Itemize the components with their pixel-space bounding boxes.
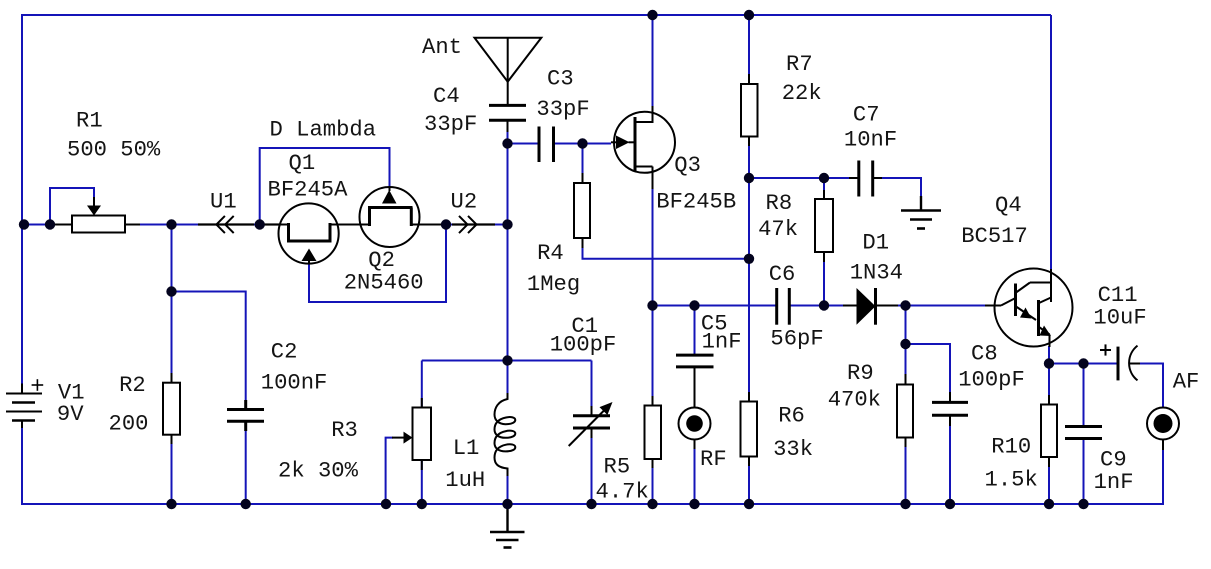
wire R2 branch bottom xyxy=(171,435,173,504)
svg-text:33pF: 33pF xyxy=(424,112,477,137)
battery V1 xyxy=(6,379,43,428)
diode D1 1N34 xyxy=(843,288,898,325)
wire R7 column xyxy=(748,15,750,84)
node main Q2 gate xyxy=(255,219,265,229)
svg-text:2N5460: 2N5460 xyxy=(344,270,424,295)
bus node R5 xyxy=(647,499,657,509)
svg-text:100nF: 100nF xyxy=(261,371,328,396)
antenna Ant xyxy=(475,38,542,106)
svg-text:1nF: 1nF xyxy=(702,330,742,355)
transistor Q3 BF245B xyxy=(611,106,675,189)
transistor Q4 BC517 xyxy=(985,269,1073,348)
resistor R9 xyxy=(897,374,913,447)
node top bus R7 xyxy=(744,10,754,20)
wire R3 wiper xyxy=(386,438,393,504)
svg-text:U1: U1 xyxy=(210,189,237,214)
svg-text:R7: R7 xyxy=(786,52,813,77)
svg-text:BF245A: BF245A xyxy=(268,177,349,202)
node U2 left xyxy=(441,219,451,229)
svg-text:R1: R1 xyxy=(76,108,103,133)
chevron node U1 xyxy=(198,216,279,233)
bus node L1/gnd xyxy=(502,499,512,509)
svg-text:R9: R9 xyxy=(847,361,874,386)
svg-text:10nF: 10nF xyxy=(844,128,897,153)
svg-text:Ant: Ant xyxy=(422,35,462,60)
wire C7 net xyxy=(749,177,859,179)
svg-text:D Lambda: D Lambda xyxy=(270,118,377,143)
svg-text:RF: RF xyxy=(700,447,727,472)
capacitor C7 xyxy=(849,161,882,197)
wire detector net y305 mid xyxy=(789,305,857,307)
capacitor C4 xyxy=(489,105,526,132)
svg-text:C3: C3 xyxy=(547,67,574,92)
node R7 bottom xyxy=(744,173,754,183)
wire C9 branch xyxy=(1083,364,1085,427)
wire C4 to C3 xyxy=(508,143,540,145)
transistor Q2 2N5460 xyxy=(360,186,447,247)
wire R1 wiper to node xyxy=(50,188,94,225)
connector RF xyxy=(679,367,711,449)
resistor R8 xyxy=(815,190,833,262)
node R8 top xyxy=(819,173,829,183)
capacitor C9 xyxy=(1065,427,1102,439)
node C2 tap xyxy=(166,286,176,296)
wire detector net y305 left xyxy=(653,305,777,307)
svg-text:1nF: 1nF xyxy=(1094,470,1134,495)
node tank xyxy=(502,355,512,365)
svg-text:C11: C11 xyxy=(1098,283,1138,308)
svg-text:C2: C2 xyxy=(271,340,298,365)
node Q4 emitter xyxy=(1044,358,1054,368)
wire R4 bottom to R7 column xyxy=(583,238,750,259)
svg-text:9V: 9V xyxy=(57,402,84,427)
wire R10 bottom xyxy=(1048,457,1050,504)
svg-text:BC517: BC517 xyxy=(961,224,1028,249)
svg-text:R3: R3 xyxy=(331,418,358,443)
capacitor C6 xyxy=(777,288,790,325)
wire R8 top xyxy=(823,178,825,199)
capacitor C5 xyxy=(676,355,714,367)
wire R7 to R6 xyxy=(748,137,750,402)
svg-text:AF: AF xyxy=(1173,370,1200,395)
svg-text:1uH: 1uH xyxy=(445,468,485,493)
bus node R2 xyxy=(166,499,176,509)
bus node R3 xyxy=(417,499,427,509)
node R8 bottom xyxy=(819,300,829,310)
wire C1 bottom xyxy=(591,438,593,504)
wire tank horizontal xyxy=(422,360,592,362)
svg-text:R5: R5 xyxy=(604,454,631,479)
connector AF xyxy=(1147,407,1179,450)
svg-text:R8: R8 xyxy=(766,191,793,216)
wire antenna column: C4 to L1 xyxy=(507,131,509,393)
wire R5 bottom xyxy=(652,459,654,504)
capacitor C11 (polarized) xyxy=(1100,344,1140,380)
capacitor C1 (variable) xyxy=(569,402,613,446)
wire R5 column xyxy=(652,306,654,406)
wire R9 column xyxy=(905,306,907,385)
node U2 right xyxy=(502,219,512,229)
resistor R1 (pot horizontal) xyxy=(50,197,140,233)
ground (tank) xyxy=(490,504,525,548)
bus node C1 xyxy=(586,499,596,509)
wire C5 to RF xyxy=(694,367,696,407)
resistor R3 (pot vertical) xyxy=(392,398,431,470)
wire Q4 collector column xyxy=(1050,15,1052,270)
svg-text:BF245B: BF245B xyxy=(656,189,736,214)
svg-text:56pF: 56pF xyxy=(770,326,823,351)
svg-text:R10: R10 xyxy=(991,435,1031,460)
svg-text:200: 200 xyxy=(109,412,149,437)
svg-text:1Meg: 1Meg xyxy=(527,272,580,297)
wire C2 bottom xyxy=(245,422,247,505)
wire C1 top xyxy=(591,361,593,407)
svg-text:4.7k: 4.7k xyxy=(596,479,649,504)
wire C5 branch xyxy=(694,306,696,356)
svg-text:R2: R2 xyxy=(119,373,146,398)
resistor R6 xyxy=(741,392,758,466)
svg-text:2k 30%: 2k 30% xyxy=(278,459,359,484)
wire main horizontal net xyxy=(22,224,508,226)
node main R2 xyxy=(166,219,176,229)
node C4/C3 xyxy=(502,138,512,148)
bus node R6 xyxy=(744,499,754,509)
svg-text:1N34: 1N34 xyxy=(850,261,903,286)
wire C9 bottom xyxy=(1083,439,1085,505)
bus node RF xyxy=(689,499,699,509)
wire Q1 gate loop xyxy=(309,225,446,303)
inductor L1 xyxy=(495,393,516,476)
node C8 tap xyxy=(900,339,910,349)
svg-text:D1: D1 xyxy=(862,230,889,255)
svg-text:100pF: 100pF xyxy=(958,367,1025,392)
node top bus Q3 xyxy=(647,10,657,20)
bus node R9 xyxy=(900,499,910,509)
bus node C9 xyxy=(1078,499,1088,509)
node D1 cathode xyxy=(900,300,910,310)
wire RF bottom xyxy=(694,440,696,504)
bus node R10 xyxy=(1044,499,1054,509)
chevron node U2 xyxy=(452,216,495,233)
svg-text:10uF: 10uF xyxy=(1093,306,1146,331)
wire emitter net to C11 xyxy=(1049,363,1117,365)
svg-text:100pF: 100pF xyxy=(550,333,617,358)
bus node R3 wiper xyxy=(381,499,391,509)
wire R9 bottom xyxy=(905,438,907,505)
svg-text:Q1: Q1 xyxy=(289,151,316,176)
svg-text:R6: R6 xyxy=(778,403,805,428)
svg-text:Q3: Q3 xyxy=(674,153,701,178)
svg-text:C7: C7 xyxy=(853,102,880,127)
wire Q3 source column xyxy=(652,187,654,306)
svg-text:1.5k: 1.5k xyxy=(985,467,1038,492)
bus node C8 xyxy=(945,499,955,509)
svg-text:33pF: 33pF xyxy=(536,97,589,122)
svg-text:Q4: Q4 xyxy=(995,193,1022,218)
node C3/R4 xyxy=(577,138,587,148)
wire R3 top xyxy=(421,361,423,408)
wire R10 top xyxy=(1048,364,1050,405)
wire C11 to AF xyxy=(1138,364,1163,408)
capacitor C3 xyxy=(539,127,554,163)
ground (C7) xyxy=(901,196,941,229)
svg-text:500 50%: 500 50% xyxy=(67,137,161,162)
resistor R4 xyxy=(574,173,590,248)
wire detector net y305 right xyxy=(876,305,997,307)
svg-text:C6: C6 xyxy=(769,262,796,287)
svg-text:U2: U2 xyxy=(451,189,478,214)
wire Q4 emitter xyxy=(1048,346,1050,364)
wire C2 branch xyxy=(172,292,246,410)
transistor Q1 BF245A xyxy=(260,203,360,264)
node main R1 left xyxy=(19,219,29,229)
wire C8 bottom xyxy=(949,416,951,505)
node Q3 source xyxy=(647,300,657,310)
svg-text:L1: L1 xyxy=(453,436,480,461)
wire top bus xyxy=(22,15,1051,385)
svg-text:33k: 33k xyxy=(773,437,813,462)
svg-text:22k: 22k xyxy=(782,81,822,106)
node R4/R6 xyxy=(744,254,754,264)
wire R4 column xyxy=(582,144,584,184)
node C5 tap xyxy=(689,300,699,310)
svg-text:470k: 470k xyxy=(828,387,881,412)
wire R3 bottom xyxy=(421,460,423,504)
bus node C2 xyxy=(241,499,251,509)
wire left rail lower xyxy=(22,427,1163,504)
svg-text:C4: C4 xyxy=(433,84,460,109)
capacitor C8 xyxy=(932,392,968,426)
svg-text:47k: 47k xyxy=(758,217,798,242)
wire Q3 drain column xyxy=(652,15,654,108)
wire L1 bottom xyxy=(507,476,509,504)
resistor R5 xyxy=(645,396,662,468)
svg-text:R4: R4 xyxy=(537,241,564,266)
node C9 tap xyxy=(1078,358,1088,368)
wire R8 bottom xyxy=(823,252,825,306)
resistor R10 xyxy=(1041,395,1057,467)
wire C3 right to Q3 gate xyxy=(554,143,612,145)
resistor R7 xyxy=(741,74,758,146)
capacitor C2 xyxy=(227,400,264,431)
wire Q2 gate D Lambda xyxy=(260,148,390,225)
wire C7 right to ground xyxy=(873,178,921,204)
wire C8 branch xyxy=(906,344,951,402)
wire R6 bottom xyxy=(748,457,750,505)
wire R2 branch top xyxy=(171,225,173,384)
svg-text:C8: C8 xyxy=(971,342,998,367)
resistor R2 xyxy=(163,373,180,444)
